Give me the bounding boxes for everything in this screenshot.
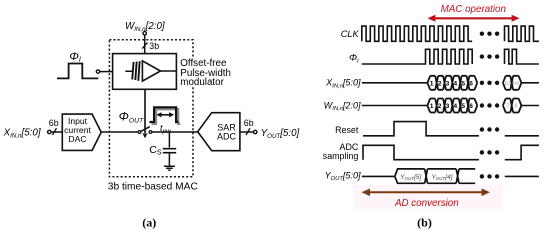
svg-text:YOUT[5:0]: YOUT[5:0] <box>261 128 300 140</box>
svg-text:3b time-based MAC: 3b time-based MAC <box>108 182 198 193</box>
svg-text:7: 7 <box>506 104 509 110</box>
svg-text:6b: 6b <box>244 118 254 128</box>
svg-text:(a): (a) <box>142 215 156 229</box>
svg-text:63: 63 <box>505 81 511 87</box>
svg-text:2: 2 <box>438 103 442 110</box>
svg-text:XIN,n[5:0]: XIN,n[5:0] <box>3 128 41 140</box>
svg-text:sampling: sampling <box>323 151 359 161</box>
svg-text:Reset: Reset <box>335 125 359 135</box>
svg-text:2: 2 <box>438 80 442 87</box>
svg-text:DAC: DAC <box>68 134 86 144</box>
svg-text:6b: 6b <box>49 118 59 128</box>
svg-text:6: 6 <box>469 80 473 87</box>
svg-text:5: 5 <box>461 80 465 87</box>
svg-text:1: 1 <box>430 103 434 110</box>
svg-text:3b: 3b <box>149 41 159 51</box>
svg-text:6: 6 <box>469 103 473 110</box>
svg-text:3: 3 <box>446 80 450 87</box>
svg-text:4: 4 <box>453 80 457 87</box>
svg-text:5: 5 <box>461 103 465 110</box>
svg-text:MAC operation: MAC operation <box>441 4 506 15</box>
svg-text:3: 3 <box>446 103 450 110</box>
svg-text:modulator: modulator <box>180 77 224 88</box>
svg-text:4: 4 <box>453 103 457 110</box>
svg-text:8: 8 <box>514 104 517 110</box>
svg-text:(b): (b) <box>417 215 432 229</box>
svg-text:1: 1 <box>430 80 434 87</box>
svg-text:AD conversion: AD conversion <box>394 198 459 209</box>
svg-text:64: 64 <box>513 81 519 87</box>
svg-text:CLK: CLK <box>341 29 360 39</box>
svg-text:ADC: ADC <box>217 132 237 142</box>
